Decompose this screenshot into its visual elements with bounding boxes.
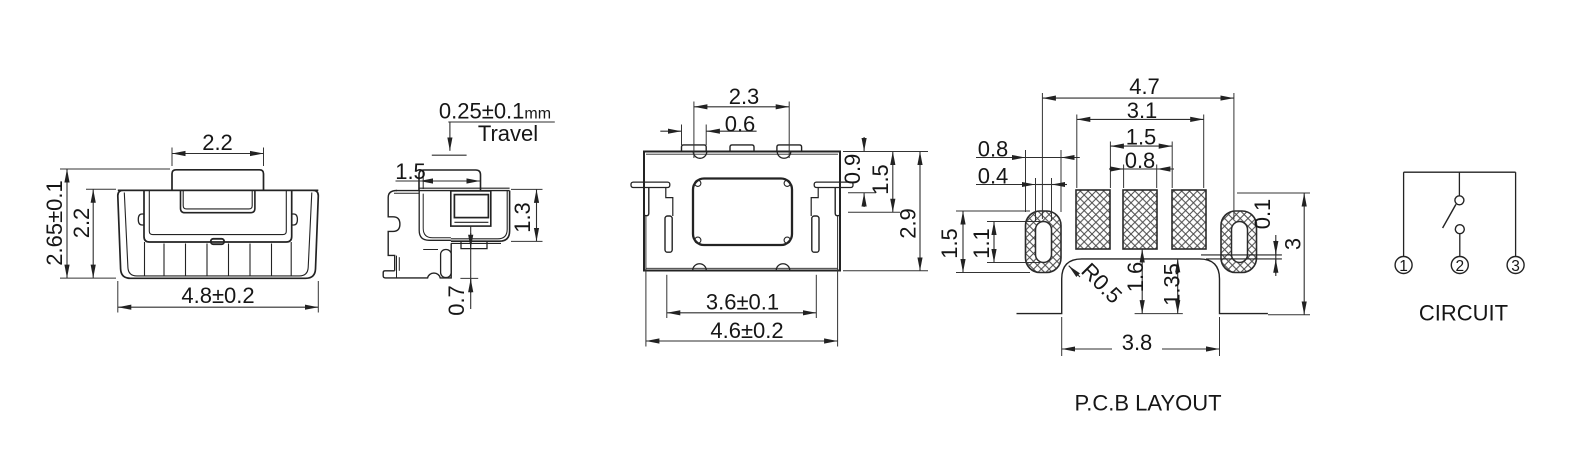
base segment lines — [145, 242, 292, 276]
dim 2.3: dimension line — [694, 106, 789, 108]
corner circles — [695, 180, 701, 186]
dim 0.9: bottom extension line — [848, 192, 876, 194]
wire to pin 2 — [1459, 234, 1461, 257]
pad 1 (hatched) — [1076, 190, 1110, 249]
svg-text:0.7: 0.7 — [444, 285, 469, 316]
center contact tab below body — [461, 241, 487, 248]
right side bump — [291, 214, 297, 225]
dim 3: dimension line — [1303, 193, 1305, 315]
wire to pin 3 — [1515, 172, 1517, 256]
left clip rect — [665, 216, 672, 252]
inner frame outer — [144, 191, 292, 242]
dim 1.5: dimension line — [892, 152, 894, 213]
svg-text:4.6±0.2: 4.6±0.2 — [710, 318, 783, 343]
button (side) — [419, 170, 481, 191]
body right and bottom outline — [451, 191, 510, 242]
right oval pad slot — [1232, 222, 1248, 263]
wire to pin 1 — [1403, 172, 1405, 256]
left oval pad slot — [1036, 222, 1052, 263]
dim 3.8: extension lines — [1061, 317, 1063, 356]
dim 2.65±0.1: dimension line — [66, 169, 68, 278]
svg-text:3.8: 3.8 — [1122, 330, 1153, 355]
dim 1.3: extension lines — [511, 188, 543, 190]
dim R0.5: leader arrow — [1069, 266, 1080, 277]
left step — [666, 188, 673, 217]
pad 2 (hatched) — [1123, 190, 1157, 249]
push button (front) — [172, 170, 264, 191]
dim 0.7: bottom tick — [460, 277, 478, 279]
dim 1.3: dimension line — [536, 189, 538, 241]
solder tab 3 — [777, 145, 802, 152]
foot slot (stadium) — [441, 250, 452, 278]
inner wall line 2 — [423, 194, 451, 238]
top notch left — [693, 152, 707, 159]
dim 1.5 left: extension lines — [956, 210, 1030, 212]
FRONT VIEW — [42, 130, 318, 313]
actuator notch outer — [181, 191, 255, 213]
svg-text:0.1: 0.1 — [1250, 199, 1275, 230]
dim 4.6±0.2: dimension line — [646, 340, 838, 342]
dim 3.8: dimension line — [1062, 348, 1112, 350]
svg-text:3.1: 3.1 — [1127, 98, 1158, 123]
inner wall line 1 — [419, 191, 451, 241]
pattern step line upper — [1201, 254, 1282, 256]
dim 0.8 center: extension lines — [1123, 165, 1125, 189]
left arm — [631, 182, 670, 187]
svg-text:2.65±0.1: 2.65±0.1 — [42, 180, 67, 265]
dim 0.9: top extension line — [843, 151, 928, 153]
dim 2.65±0.1: extension lines — [60, 168, 170, 170]
bottom notch left — [693, 264, 707, 271]
svg-text:2.3: 2.3 — [729, 84, 760, 109]
dim 2.2 top: dimension line — [172, 153, 264, 155]
body outline — [644, 152, 840, 271]
dim 1.6: dimension line — [1141, 249, 1143, 314]
pin 2 — [1451, 257, 1468, 274]
switch body outer shell — [118, 190, 318, 278]
svg-text:1.35: 1.35 — [1160, 263, 1185, 306]
travel leader shelf — [448, 121, 555, 123]
svg-text:3: 3 — [1281, 238, 1306, 250]
pattern step line lower — [1206, 258, 1282, 260]
board edge with tongue — [1017, 259, 1268, 314]
svg-text:4.7: 4.7 — [1129, 74, 1160, 99]
dim 0.7: lower outside arrow — [470, 279, 472, 293]
dim 0.4 left: lines and arrows — [976, 184, 1035, 186]
wire to switch contact — [1458, 172, 1460, 196]
svg-text:1.5: 1.5 — [1126, 125, 1157, 150]
dim 3.1: extension lines — [1076, 115, 1078, 189]
dim 4.7: dimension line — [1042, 97, 1234, 99]
dim 4.8±0.2: extension lines — [117, 281, 119, 313]
dim 4.6±0.2: extension lines — [645, 216, 647, 347]
body top double line — [419, 187, 510, 189]
dim 0.7: upper outside arrow — [470, 233, 472, 248]
dim 1.5 center: extension lines — [1109, 142, 1111, 189]
bottom edge second line — [451, 242, 501, 244]
dim 3.6±0.1: dimension line — [667, 312, 817, 314]
svg-text:2.2: 2.2 — [202, 130, 233, 155]
svg-text:1.5: 1.5 — [395, 159, 426, 184]
actuator notch inner — [183, 191, 252, 209]
dim 0.8 left: lines and arrows — [976, 157, 1025, 159]
solder tab 2 — [730, 145, 754, 152]
top notch right — [777, 152, 791, 159]
body inner top line — [646, 153, 838, 155]
contact pocket outer — [451, 191, 491, 226]
dim 4.7: extension lines — [1041, 93, 1043, 219]
svg-text:3.6±0.1: 3.6±0.1 — [706, 290, 779, 315]
left plate outline with side bump — [388, 191, 400, 271]
dim 4.8±0.2: dimension line — [118, 306, 318, 308]
svg-text:1.3: 1.3 — [510, 202, 535, 233]
dim 1.1 left: extension lines — [987, 221, 1040, 223]
TOP VIEW — [631, 84, 928, 347]
right leg (round cap) — [835, 188, 840, 216]
svg-text:2.9: 2.9 — [896, 208, 921, 239]
body top edge line — [118, 189, 318, 191]
pocket lower line — [454, 221, 488, 223]
plate top second line — [394, 192, 419, 194]
dim 3: extension lines — [1237, 192, 1310, 194]
right arm — [814, 182, 853, 187]
dim 0.7: vertical line — [470, 227, 472, 310]
dim 0.4 left: extension lines — [1035, 178, 1037, 221]
svg-text:Travel: Travel — [478, 121, 538, 146]
dim 2.2 left: dimension line — [92, 189, 94, 278]
pin 3 — [1507, 257, 1524, 274]
dim 1.5 left: dimension line — [962, 211, 964, 273]
right oval pad outer — [1221, 211, 1257, 273]
bottom notch right — [776, 264, 790, 271]
plate inner verticals — [396, 256, 398, 278]
inner frame inner line — [149, 191, 286, 235]
svg-text:1.5: 1.5 — [868, 164, 893, 195]
dim 0.6: outside arrows — [660, 130, 681, 132]
svg-text:P.C.B LAYOUT: P.C.B LAYOUT — [1074, 391, 1221, 416]
dim 0.1: vertical line — [1275, 235, 1277, 276]
svg-text:1.1: 1.1 — [969, 228, 994, 259]
switch moving contact — [1455, 225, 1464, 234]
right step — [811, 188, 818, 217]
switch fixed contact — [1455, 196, 1464, 205]
svg-text:1: 1 — [1399, 258, 1408, 275]
dim 2.3: extension lines — [693, 102, 695, 159]
dim 2.9: dimension line — [919, 152, 921, 271]
dim 1.35: dimension line — [1177, 259, 1179, 314]
body bottom inner line — [451, 191, 507, 239]
travel leader arrow — [449, 122, 451, 151]
center bottom dimple — [211, 239, 224, 244]
dim 0.8 left: extension lines — [1025, 150, 1027, 212]
svg-text:CIRCUIT: CIRCUIT — [1419, 301, 1508, 326]
top wire — [1404, 171, 1516, 173]
PCB LAYOUT — [937, 74, 1310, 416]
dim 3.1: dimension line — [1077, 118, 1204, 120]
pin 1 — [1395, 257, 1412, 274]
right clip rect — [812, 216, 819, 252]
switch arm — [1443, 204, 1456, 228]
travel reference line — [432, 154, 467, 156]
body inner bottom line — [646, 267, 838, 269]
svg-text:0.9: 0.9 — [840, 154, 865, 185]
left leg (round cap) — [644, 188, 649, 216]
svg-text:2: 2 — [1455, 258, 1464, 275]
svg-text:1.6: 1.6 — [1123, 262, 1148, 293]
svg-text:0.6: 0.6 — [725, 112, 756, 137]
svg-text:1.5: 1.5 — [937, 228, 962, 259]
dim 0.1: outside arrows — [1275, 240, 1277, 255]
svg-text:4.8±0.2: 4.8±0.2 — [181, 283, 254, 308]
left oval pad outer — [1026, 211, 1062, 273]
dim 2.2 left: extension line — [86, 188, 116, 190]
dim 1.5: dimension line — [396, 180, 420, 182]
dim 3.6±0.1: extension lines — [666, 275, 668, 318]
dim 2.2 top: extension lines — [171, 148, 173, 167]
mid extension segment — [1135, 313, 1183, 315]
svg-text:3: 3 — [1511, 258, 1520, 275]
small step line — [423, 249, 438, 251]
svg-text:0.8: 0.8 — [1125, 148, 1156, 173]
solder tab 1 — [682, 145, 707, 152]
dim 1.1 left: dimension line — [993, 222, 995, 263]
shell inner wall lines — [124, 193, 311, 276]
contact pocket inner — [454, 195, 488, 218]
actuator window (rounded rect) — [693, 179, 792, 246]
dim 2.9: bottom extension line — [843, 270, 928, 272]
SIDE VIEW — [383, 99, 555, 316]
CIRCUIT — [1395, 172, 1524, 325]
dim 0.9: outside arrows — [863, 137, 865, 151]
svg-text:2.2: 2.2 — [69, 208, 94, 239]
bottom feet profile — [383, 243, 451, 278]
dim 0.6: extension lines — [681, 125, 683, 146]
dim 0.8 center: outside arrows — [1109, 168, 1123, 170]
pad 3 (hatched) — [1172, 190, 1206, 249]
left side bump — [138, 214, 144, 225]
dim 1.5: bottom extension line — [848, 211, 900, 213]
button inner edge line — [422, 172, 424, 190]
dim 1.5 center: dimension line — [1110, 145, 1172, 147]
